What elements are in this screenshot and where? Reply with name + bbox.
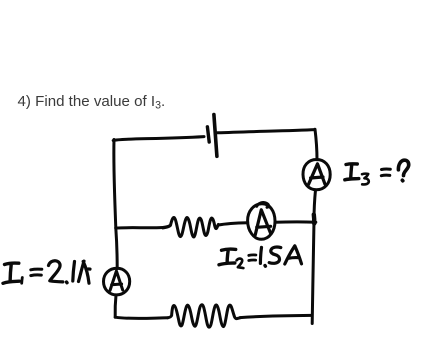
label I1 digit 1 bbox=[73, 262, 75, 282]
wire: top wire left of battery bbox=[113, 137, 204, 141]
label I2 digit 5 (S-shape) bbox=[269, 247, 281, 263]
wire: top wire right of battery bbox=[218, 130, 316, 133]
label I3 subscript 3 bbox=[362, 174, 369, 185]
wire: left vertical below A1 to bottom corner bbox=[114, 295, 118, 317]
ammeter A2 circle bbox=[248, 203, 275, 240]
label I3 = ? : letter I bbox=[345, 164, 359, 180]
wire: bottom wire from corner to resistor R3 bbox=[115, 317, 167, 318]
wire: left vertical (top-left corner down to middle junction) bbox=[114, 140, 116, 229]
label I2 = 1.5A : letter I bbox=[219, 249, 236, 265]
resistor R3 rounded zigzag bbox=[168, 305, 241, 327]
label I2 equals sign bbox=[249, 255, 256, 261]
wire: bottom wire from R3 to right vertical bbox=[240, 315, 312, 317]
svg-text:4) Find the value of I3.: 4) Find the value of I3. bbox=[18, 93, 166, 112]
wire: left vertical (middle junction down to ammeter A1) bbox=[116, 228, 117, 269]
label I1 decimal point bbox=[65, 280, 69, 284]
label I2 digit 1 bbox=[260, 247, 261, 263]
label I1 subscript 1 bbox=[20, 278, 23, 284]
resistor R2 rounded zigzag bbox=[163, 218, 218, 237]
ammeter A2 letter A bbox=[255, 210, 271, 235]
label I3 question mark bbox=[398, 160, 408, 181]
wire: right vertical from top corner to ammeter A3 bbox=[315, 129, 317, 160]
label I2 letter A bbox=[285, 246, 302, 264]
wire: middle branch from left vertical to resistor R2 bbox=[116, 226, 163, 230]
ammeter A3 circle bbox=[303, 160, 330, 190]
label I1 digit 2 bbox=[49, 261, 63, 282]
label I1 letter A (lambda/caret shape with stub) bbox=[79, 261, 91, 283]
wire: from R2 to ammeter A2 bbox=[218, 223, 247, 225]
label I1 = 2.1A : letter I bbox=[3, 263, 19, 283]
wire: right vertical from A3 to middle junction bbox=[314, 190, 316, 221]
junction blob on right vertical at middle wire bbox=[312, 215, 317, 224]
ammeter A1 circle bbox=[104, 268, 130, 295]
label I3 equals sign bbox=[381, 169, 390, 176]
battery B1 short plate bbox=[207, 127, 209, 142]
title text "4) Find the value of I3." bbox=[18, 93, 166, 112]
label I2 subscript 2 bbox=[237, 259, 244, 269]
ammeter A3 letter A bbox=[308, 164, 325, 185]
wire: right vertical from middle junction to bottom bbox=[312, 221, 314, 324]
ammeter A1 letter A bbox=[110, 271, 123, 291]
label I1 equals sign bbox=[31, 269, 42, 275]
label I2 decimal point bbox=[263, 264, 267, 268]
wire: from A2 to right vertical junction bbox=[275, 220, 316, 223]
battery B1 long plate bbox=[214, 115, 217, 157]
